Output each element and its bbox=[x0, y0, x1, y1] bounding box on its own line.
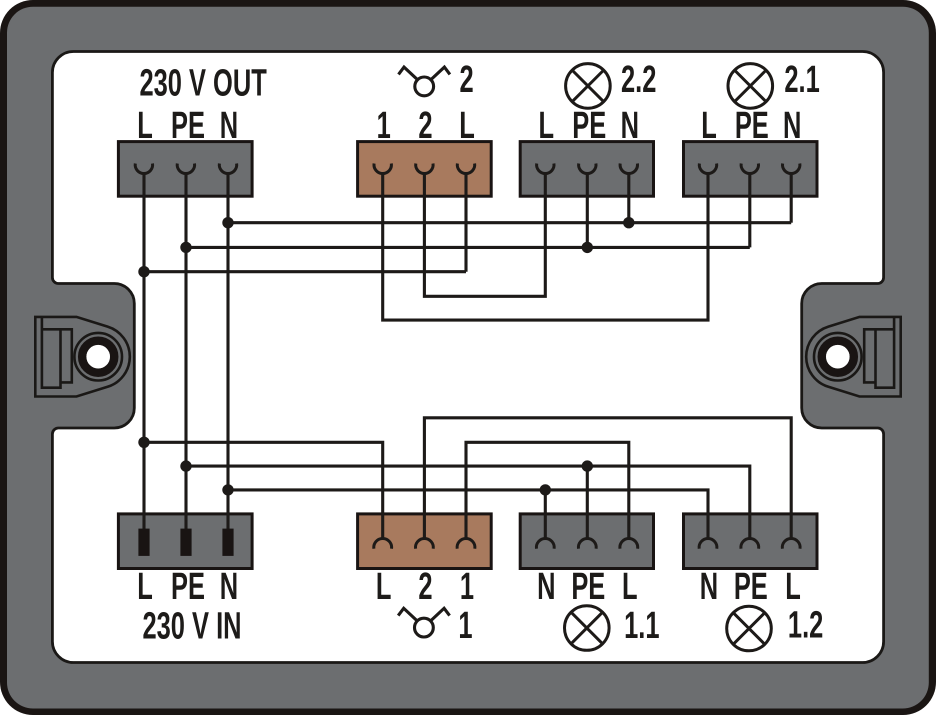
svg-text:1: 1 bbox=[460, 565, 474, 607]
svg-text:N: N bbox=[700, 565, 718, 607]
svg-text:230 V IN: 230 V IN bbox=[143, 604, 242, 646]
svg-text:L: L bbox=[622, 565, 638, 607]
svg-text:PE: PE bbox=[572, 104, 606, 146]
svg-text:1.2: 1.2 bbox=[788, 604, 823, 646]
svg-text:L: L bbox=[459, 104, 475, 146]
svg-text:2.2: 2.2 bbox=[621, 58, 656, 100]
svg-text:PE: PE bbox=[734, 565, 768, 607]
svg-text:2: 2 bbox=[418, 104, 432, 146]
svg-text:N: N bbox=[220, 565, 238, 607]
svg-text:1: 1 bbox=[458, 604, 472, 646]
svg-text:1.1: 1.1 bbox=[624, 604, 659, 646]
svg-text:PE: PE bbox=[171, 565, 205, 607]
svg-text:PE: PE bbox=[735, 104, 769, 146]
svg-text:L: L bbox=[785, 565, 801, 607]
svg-text:L: L bbox=[539, 104, 555, 146]
svg-text:N: N bbox=[220, 104, 238, 146]
svg-text:L: L bbox=[137, 104, 153, 146]
svg-text:N: N bbox=[621, 104, 639, 146]
svg-text:L: L bbox=[137, 565, 153, 607]
svg-text:230 V OUT: 230 V OUT bbox=[140, 62, 267, 104]
svg-text:1: 1 bbox=[377, 104, 391, 146]
svg-text:2: 2 bbox=[418, 565, 432, 607]
svg-text:L: L bbox=[701, 104, 717, 146]
svg-text:N: N bbox=[537, 565, 555, 607]
svg-text:N: N bbox=[783, 104, 801, 146]
svg-text:2.1: 2.1 bbox=[784, 58, 819, 100]
svg-text:L: L bbox=[376, 565, 392, 607]
svg-text:PE: PE bbox=[571, 565, 605, 607]
svg-text:2: 2 bbox=[459, 58, 473, 100]
svg-text:PE: PE bbox=[171, 104, 205, 146]
